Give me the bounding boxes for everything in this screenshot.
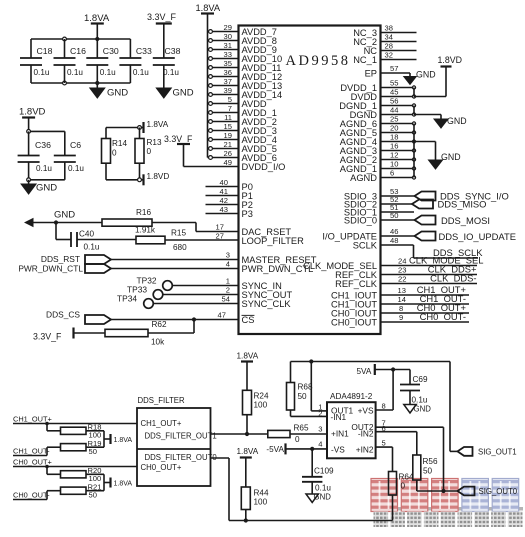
svg-text:GND: GND bbox=[107, 88, 128, 99]
pin 53 SDIO_3 bbox=[344, 187, 415, 201]
svg-text:0: 0 bbox=[112, 149, 117, 158]
svg-text:C36: C36 bbox=[35, 140, 51, 150]
pin 42 P2 bbox=[206, 196, 253, 210]
pin 55 DVDD_1 bbox=[340, 79, 415, 93]
capacitor C38 0.1u bbox=[153, 46, 181, 88]
svg-text:9: 9 bbox=[399, 313, 403, 322]
svg-text:C6: C6 bbox=[70, 140, 81, 150]
port DDS_IO_UPDATE bbox=[415, 231, 516, 242]
power 3.3V_F (R62) bbox=[33, 328, 74, 342]
svg-text:1.8VA: 1.8VA bbox=[237, 447, 259, 456]
svg-text:0.1u: 0.1u bbox=[163, 68, 179, 77]
svg-text:GND: GND bbox=[173, 88, 194, 99]
wire AGND bracket bbox=[412, 124, 436, 178]
resistor R18 100 bbox=[47, 423, 104, 440]
svg-text:GND: GND bbox=[54, 210, 75, 221]
svg-text:50: 50 bbox=[298, 392, 308, 401]
svg-text:1.8VA: 1.8VA bbox=[84, 13, 110, 24]
pin 48 SCLK bbox=[353, 236, 414, 250]
wire GND to R16 bbox=[34, 220, 103, 224]
pin 4 PWR_DWN_CTL bbox=[111, 260, 313, 274]
wire DGND bracket bbox=[414, 106, 441, 115]
svg-text:54: 54 bbox=[222, 295, 230, 304]
resistor R15 680 bbox=[136, 229, 187, 253]
pin 57 EP bbox=[365, 64, 410, 78]
pin 32 NC_1 bbox=[353, 51, 416, 65]
pin 52 SDIO_2 bbox=[344, 195, 412, 209]
pin 31 AVDD_9 bbox=[208, 41, 277, 55]
svg-text:0.1u: 0.1u bbox=[36, 164, 52, 173]
test point TP34 bbox=[117, 294, 153, 309]
svg-text:CH0_OUT-: CH0_OUT- bbox=[420, 311, 466, 322]
ground (DGND) bbox=[434, 115, 467, 129]
pin 7 OUT2 bbox=[376, 419, 444, 491]
svg-text:1.8VA: 1.8VA bbox=[147, 120, 169, 129]
wire feedback top (OUT1 to SIG_OUT1) bbox=[291, 361, 451, 363]
svg-text:SIG_OUT0: SIG_OUT0 bbox=[479, 487, 518, 496]
svg-text:44: 44 bbox=[390, 106, 398, 115]
ground (cap bank) bbox=[90, 83, 128, 99]
pin 56 DGND_1 bbox=[339, 97, 415, 111]
capacitor C6 0.1u bbox=[54, 131, 85, 179]
pin 21 AVDD_5 bbox=[208, 140, 277, 154]
svg-text:5VA: 5VA bbox=[357, 367, 372, 376]
resistor R64 0 bbox=[389, 472, 414, 521]
pin 37 AVDD_13 bbox=[208, 77, 283, 91]
svg-text:DDS_FILTER: DDS_FILTER bbox=[138, 396, 185, 405]
pin 39 AVDD_14 bbox=[208, 86, 283, 100]
svg-text:100: 100 bbox=[254, 401, 268, 410]
power 3.3V_F (C38) bbox=[147, 12, 177, 58]
pin 47 CS bbox=[111, 311, 254, 325]
svg-text:1.8VA: 1.8VA bbox=[237, 352, 259, 361]
svg-text:49: 49 bbox=[224, 158, 232, 167]
svg-text:17: 17 bbox=[216, 223, 224, 232]
pin 43 P3 bbox=[206, 205, 253, 219]
svg-text:26: 26 bbox=[224, 149, 232, 158]
svg-text:SYNC_CLK: SYNC_CLK bbox=[242, 299, 292, 309]
svg-text:31: 31 bbox=[224, 41, 232, 50]
svg-text:0.1u: 0.1u bbox=[412, 396, 428, 405]
svg-text:3.3V_F: 3.3V_F bbox=[164, 134, 193, 144]
pin 34 NC_2 bbox=[353, 33, 416, 47]
port SIG_OUT1 bbox=[458, 447, 517, 456]
svg-text:R65: R65 bbox=[294, 424, 309, 433]
svg-text:56: 56 bbox=[390, 97, 398, 106]
svg-text:12: 12 bbox=[390, 151, 398, 160]
svg-text:0.1u: 0.1u bbox=[100, 68, 116, 77]
svg-text:43: 43 bbox=[220, 205, 228, 214]
svg-text:50: 50 bbox=[89, 447, 97, 456]
svg-text:GND: GND bbox=[314, 493, 332, 502]
svg-text:-IN2: -IN2 bbox=[358, 428, 374, 438]
svg-text:38: 38 bbox=[385, 24, 393, 33]
wire 1.8VA vertical bus bbox=[207, 14, 209, 158]
svg-text:GND: GND bbox=[36, 183, 57, 194]
pin 13 CH1_IOUT / net CH1_OUT+ bbox=[331, 284, 469, 300]
svg-text:REF_CLK: REF_CLK bbox=[335, 279, 378, 289]
watermark logo 易迪拓培训 bbox=[371, 479, 523, 512]
pin 54 SYNC_CLK bbox=[153, 295, 291, 309]
resistor R21 50 bbox=[47, 483, 104, 500]
resistor R65 0 bbox=[268, 424, 327, 445]
svg-text:C109: C109 bbox=[314, 467, 334, 476]
svg-text:37: 37 bbox=[224, 77, 232, 86]
ground (C69) bbox=[404, 405, 431, 414]
pin 10 AGND_1 bbox=[340, 160, 416, 174]
svg-text:GND: GND bbox=[416, 70, 436, 80]
pin 18 AGND_4 bbox=[340, 133, 414, 147]
svg-text:0.1u: 0.1u bbox=[68, 164, 84, 173]
power 1.8VA (R20/R21) bbox=[104, 474, 132, 490]
pin 14 CH1_IOUT / net CH1_OUT- bbox=[331, 293, 469, 309]
svg-text:4: 4 bbox=[318, 440, 322, 449]
IC U2 ADA4891-2 bbox=[327, 392, 376, 458]
svg-text:46: 46 bbox=[390, 227, 398, 236]
pin 50 SDIO_0 bbox=[344, 211, 415, 225]
svg-text:0.1u: 0.1u bbox=[315, 484, 331, 493]
wire DDS_FILTER_OUT1 bbox=[211, 432, 268, 436]
wire DVDD bracket bbox=[414, 88, 446, 97]
capacitor C69 0.1u bbox=[400, 370, 428, 405]
svg-text:EP: EP bbox=[365, 68, 377, 78]
wire R14/R13 bottom bus bbox=[106, 179, 140, 181]
wire cap bank bottom bus bbox=[31, 82, 130, 84]
svg-text:7: 7 bbox=[228, 104, 232, 113]
pin 45 DVDD bbox=[351, 88, 416, 102]
svg-text:R44: R44 bbox=[254, 489, 269, 498]
svg-text:55: 55 bbox=[390, 79, 398, 88]
svg-text:+IN2: +IN2 bbox=[356, 444, 374, 454]
resistor R56 50 bbox=[413, 455, 438, 491]
pin 28 NC bbox=[364, 42, 417, 56]
pin 20 AGND_5 bbox=[340, 124, 416, 138]
pin 29 AVDD_7 bbox=[208, 23, 277, 37]
test point TP33 bbox=[127, 285, 163, 300]
svg-text:1.8VA: 1.8VA bbox=[114, 437, 133, 444]
pin 1 OUT1 / wire to feedback node bbox=[309, 359, 327, 411]
pin 46 I/O_UPDATE bbox=[322, 227, 414, 241]
svg-text:42: 42 bbox=[220, 196, 228, 205]
svg-text:PWR_DWN_CTL: PWR_DWN_CTL bbox=[18, 264, 83, 274]
svg-text:CH0_IOUT: CH0_IOUT bbox=[331, 317, 377, 327]
pin 49 DVDD_I/O bbox=[184, 144, 286, 172]
svg-text:4: 4 bbox=[226, 260, 230, 269]
svg-text:11: 11 bbox=[224, 113, 232, 122]
wire DDS_FILTER_OUT0 bbox=[211, 458, 393, 523]
IC U1 AD9958 bbox=[239, 26, 381, 335]
svg-text:1: 1 bbox=[226, 277, 230, 286]
capacitor C109 0.1u bbox=[302, 449, 334, 494]
port DDS_RST bbox=[41, 254, 111, 264]
ground (EP) bbox=[404, 70, 436, 85]
resistor R19 50 bbox=[47, 439, 104, 456]
capacitor C18 0.1u bbox=[20, 39, 53, 83]
pin 26 AVDD_6 bbox=[208, 149, 277, 163]
svg-text:14: 14 bbox=[398, 295, 406, 304]
svg-text:36: 36 bbox=[224, 68, 232, 77]
pin 23 REF_CLK / net CLK_DDS+ bbox=[335, 264, 477, 280]
svg-text:1.8VA: 1.8VA bbox=[114, 480, 133, 487]
port CH1_OUT+ bbox=[13, 415, 137, 426]
port SIG_OUT0 bbox=[458, 487, 518, 496]
power 1.8VA (AVDD bus) bbox=[196, 3, 221, 14]
junction dots on cap bus bbox=[63, 37, 100, 85]
wire C36/C6 bottom bus bbox=[27, 178, 65, 182]
svg-text:1.8VD: 1.8VD bbox=[438, 55, 462, 65]
power 1.8VD (C36/C6) bbox=[19, 107, 46, 132]
wire / net label DDS_SCLK bbox=[414, 245, 484, 258]
resistor R20 100 bbox=[47, 466, 104, 483]
test point TP32 bbox=[137, 276, 173, 291]
pin 17 DAC_RSET bbox=[216, 223, 292, 237]
svg-text:1.8VA: 1.8VA bbox=[196, 3, 221, 13]
svg-text:2: 2 bbox=[226, 286, 230, 295]
svg-text:19: 19 bbox=[224, 131, 232, 140]
svg-text:CH1_OUT+: CH1_OUT+ bbox=[141, 419, 182, 428]
svg-text:GND: GND bbox=[447, 116, 467, 126]
svg-text:16: 16 bbox=[390, 142, 398, 151]
port DDS_CS bbox=[46, 310, 111, 325]
port CH1_OUT- bbox=[13, 447, 50, 456]
resistor R16 1.91k bbox=[102, 208, 156, 235]
port DDS_MOSI bbox=[415, 215, 490, 226]
svg-text:DDS_FILTER_OUT0: DDS_FILTER_OUT0 bbox=[145, 453, 218, 462]
pin 8 CH0_IOUT / net CH0_OUT+ bbox=[331, 302, 469, 318]
svg-text:CH1_OUT-: CH1_OUT- bbox=[13, 447, 50, 456]
svg-text:R13: R13 bbox=[147, 138, 162, 147]
power 3.3V_F (DVDD_I/O) bbox=[164, 134, 193, 144]
capacitor C36 0.1u bbox=[18, 131, 53, 179]
svg-text:LOOP_FILTER: LOOP_FILTER bbox=[242, 236, 305, 246]
svg-text:3: 3 bbox=[226, 251, 230, 260]
svg-text:CS: CS bbox=[242, 315, 255, 325]
power -5VA bbox=[266, 443, 285, 454]
wire R16 to pin 17 bbox=[152, 223, 239, 232]
svg-text:0.1u: 0.1u bbox=[133, 68, 149, 77]
block U3 DDS_FILTER bbox=[137, 396, 217, 486]
pin 27 LOOP_FILTER bbox=[165, 232, 304, 246]
port DDS_MISO bbox=[412, 199, 486, 210]
svg-text:8: 8 bbox=[399, 304, 403, 313]
svg-text:C38: C38 bbox=[165, 46, 181, 56]
svg-text:23: 23 bbox=[398, 266, 406, 275]
svg-text:35: 35 bbox=[224, 59, 232, 68]
svg-text:AD9958: AD9958 bbox=[286, 53, 351, 69]
svg-text:50: 50 bbox=[390, 211, 398, 220]
resistor R62 10k bbox=[74, 320, 195, 347]
svg-text:NC_1: NC_1 bbox=[353, 55, 377, 65]
ground (AGND) bbox=[429, 142, 461, 170]
svg-text:C16: C16 bbox=[70, 46, 86, 56]
ground (C38) bbox=[156, 88, 193, 99]
svg-text:57: 57 bbox=[390, 64, 398, 73]
pin 5 AVDD bbox=[208, 95, 267, 109]
pin 22 REF_CLK / net CLK_DDS- bbox=[335, 273, 477, 289]
svg-text:50: 50 bbox=[89, 491, 97, 500]
pin 19 AVDD_4 bbox=[208, 131, 277, 145]
svg-text:32: 32 bbox=[385, 51, 393, 60]
svg-text:34: 34 bbox=[385, 33, 393, 42]
svg-text:C18: C18 bbox=[37, 46, 53, 56]
svg-text:47: 47 bbox=[218, 311, 226, 320]
capacitor C30 0.1u bbox=[86, 39, 119, 83]
svg-text:C30: C30 bbox=[103, 46, 119, 56]
svg-text:3.3V_F: 3.3V_F bbox=[33, 332, 62, 342]
svg-text:R64: R64 bbox=[399, 473, 414, 482]
svg-text:+IN1: +IN1 bbox=[331, 429, 349, 439]
svg-text:SDIO_0: SDIO_0 bbox=[344, 215, 377, 225]
pin 35 AVDD_11 bbox=[208, 59, 282, 73]
port CH0_OUT- bbox=[13, 491, 50, 500]
ground (R16) bbox=[24, 210, 75, 228]
svg-text:0.1u: 0.1u bbox=[84, 243, 100, 252]
svg-text:18: 18 bbox=[390, 133, 398, 142]
svg-text:0.1u: 0.1u bbox=[34, 68, 50, 77]
svg-text:1.8VD: 1.8VD bbox=[147, 172, 170, 181]
power 5VA bbox=[357, 364, 411, 376]
svg-text:R56: R56 bbox=[423, 457, 438, 466]
svg-text:33: 33 bbox=[224, 50, 232, 59]
svg-text:6: 6 bbox=[390, 169, 394, 178]
ground (C109) bbox=[306, 493, 331, 503]
svg-text:R68: R68 bbox=[298, 383, 313, 392]
pin 16 AGND_3 bbox=[340, 142, 416, 156]
svg-text:SIG_OUT1: SIG_OUT1 bbox=[478, 447, 517, 456]
pin 38 NC_3 bbox=[353, 24, 416, 38]
svg-text:13: 13 bbox=[398, 286, 406, 295]
pin 2 -IN1 bbox=[291, 409, 328, 418]
svg-text:CLK_DDS-: CLK_DDS- bbox=[430, 273, 476, 284]
svg-text:40: 40 bbox=[220, 178, 228, 187]
svg-text:CH0_OUT+: CH0_OUT+ bbox=[141, 463, 182, 472]
ground (C36/C6) bbox=[21, 180, 57, 194]
pin 40 P0 bbox=[206, 178, 253, 192]
pin 2 SYNC_OUT bbox=[163, 286, 293, 300]
svg-text:P3: P3 bbox=[242, 209, 253, 219]
svg-text:25: 25 bbox=[390, 115, 398, 124]
svg-text:-5VA: -5VA bbox=[266, 445, 284, 454]
power 1.8VA (R44) bbox=[237, 447, 259, 487]
resistor R24 100 bbox=[243, 390, 269, 434]
svg-text:DDS_RST: DDS_RST bbox=[41, 254, 80, 264]
svg-text:50: 50 bbox=[423, 467, 433, 476]
svg-text:21: 21 bbox=[224, 140, 232, 149]
pin 44 DGND bbox=[350, 106, 416, 120]
power 1.8VA (R18/R19) bbox=[104, 431, 132, 447]
pin 25 AGND_6 bbox=[340, 115, 416, 129]
pin 4 -VS bbox=[286, 440, 328, 452]
pin 5 +IN2 bbox=[376, 439, 393, 472]
pin 11 AVDD_2 bbox=[208, 113, 277, 127]
resistor R44 100 bbox=[241, 487, 269, 521]
svg-text:30: 30 bbox=[224, 32, 232, 41]
pin 1 SYNC_IN bbox=[172, 277, 282, 291]
pin 33 AVDD_10 bbox=[208, 50, 283, 64]
power 1.8VA (R13 top) bbox=[138, 120, 169, 133]
port DDS_SYNC_I/O bbox=[415, 191, 509, 202]
resistor R13 0 bbox=[135, 128, 162, 180]
capacitor C16 0.1u bbox=[54, 39, 87, 83]
capacitor C33 0.1u bbox=[119, 39, 152, 83]
svg-text:28: 28 bbox=[385, 42, 393, 51]
svg-text:0.1u: 0.1u bbox=[67, 68, 83, 77]
svg-text:27: 27 bbox=[216, 232, 224, 241]
svg-text:100: 100 bbox=[254, 498, 268, 507]
svg-text:41: 41 bbox=[220, 187, 228, 196]
svg-text:3: 3 bbox=[318, 425, 322, 434]
port PWR_DWN_CTL bbox=[18, 264, 111, 274]
svg-text:DDS_IO_UPDATE: DDS_IO_UPDATE bbox=[439, 231, 516, 242]
resistor R68 50 bbox=[287, 362, 313, 417]
svg-text:DDS_MOSI: DDS_MOSI bbox=[441, 215, 490, 226]
svg-text:20: 20 bbox=[390, 124, 398, 133]
wire cap bank top bus bbox=[31, 38, 130, 40]
power 1.8VD (R13 bottom) bbox=[138, 172, 170, 185]
svg-text:GND: GND bbox=[441, 152, 461, 162]
svg-text:R62: R62 bbox=[152, 320, 167, 329]
svg-text:0: 0 bbox=[295, 435, 300, 444]
wire to SIG_OUT1 bbox=[450, 362, 458, 452]
wire C36/C6 top bus bbox=[27, 130, 65, 134]
pin 3 +IN1 bbox=[318, 425, 322, 434]
svg-text:-VS: -VS bbox=[331, 444, 345, 454]
svg-text:+VS: +VS bbox=[358, 405, 374, 415]
svg-text:1.8VD: 1.8VD bbox=[19, 107, 46, 118]
svg-text:C33: C33 bbox=[136, 46, 152, 56]
power 1.8VD (DVDD) bbox=[438, 55, 462, 97]
svg-text:24: 24 bbox=[398, 257, 406, 266]
svg-text:CH0_OUT-: CH0_OUT- bbox=[13, 491, 50, 500]
pin 36 AVDD_12 bbox=[208, 68, 283, 82]
pin 30 AVDD_8 bbox=[208, 32, 277, 46]
svg-text:29: 29 bbox=[224, 23, 232, 32]
svg-text:TP34: TP34 bbox=[117, 294, 137, 304]
power 1.8VA (R24) bbox=[237, 352, 259, 391]
svg-text:0: 0 bbox=[401, 482, 406, 491]
pin 7 AVDD_1 bbox=[208, 104, 277, 118]
wire R14/R13 top bus bbox=[106, 127, 140, 129]
svg-text:48: 48 bbox=[390, 236, 398, 245]
svg-text:ADA4891-2: ADA4891-2 bbox=[330, 392, 373, 401]
svg-text:10k: 10k bbox=[151, 338, 165, 347]
power 1.8VA (cap bank) bbox=[84, 13, 110, 39]
pin 8 +VS bbox=[376, 367, 396, 410]
svg-text:SCLK: SCLK bbox=[353, 240, 378, 250]
svg-text:GND: GND bbox=[414, 405, 432, 414]
svg-text:10: 10 bbox=[390, 160, 398, 169]
pin 9 CH0_IOUT / net CH0_OUT- bbox=[331, 311, 469, 327]
svg-text:-IN1: -IN1 bbox=[331, 412, 347, 422]
svg-text:45: 45 bbox=[390, 88, 398, 97]
pin 3 MASTER_RESET bbox=[111, 251, 317, 265]
svg-text:DVDD_I/O: DVDD_I/O bbox=[242, 162, 286, 172]
svg-text:0: 0 bbox=[147, 147, 152, 156]
svg-text:5: 5 bbox=[228, 95, 232, 104]
svg-text:DDS_MISO: DDS_MISO bbox=[438, 199, 487, 210]
svg-text:39: 39 bbox=[224, 86, 232, 95]
svg-text:AGND: AGND bbox=[350, 173, 377, 183]
pin 24 CLK_MODE_SEL / net CLK_MODE_SEL bbox=[303, 255, 483, 271]
svg-text:8: 8 bbox=[382, 402, 386, 411]
svg-text:DDS_FILTER_OUT1: DDS_FILTER_OUT1 bbox=[145, 432, 217, 441]
wire to SIG_OUT0 bbox=[417, 489, 458, 493]
port CH0_OUT+ bbox=[13, 458, 137, 469]
pin 41 P1 bbox=[206, 187, 253, 201]
resistor R14 0 bbox=[102, 128, 128, 180]
pin 6 AGND bbox=[350, 169, 415, 183]
svg-text:15: 15 bbox=[224, 122, 232, 131]
